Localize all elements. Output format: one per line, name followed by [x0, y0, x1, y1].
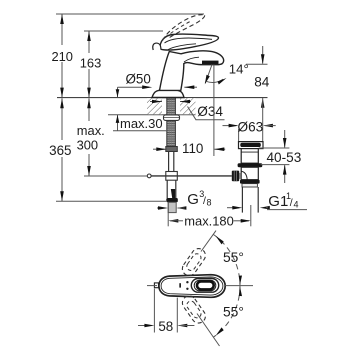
- dimension max.300 vertical line: [87, 98, 91, 176]
- dimension Ø50 base width arrows: [142, 85, 197, 89]
- top view lever paddle: [191, 279, 218, 293]
- countertop hatched slab left of hole: [147, 98, 162, 114]
- dimension 365 vertical line: [60, 98, 64, 201]
- lever raised dashed: [163, 15, 205, 41]
- svg-text:14°: 14°: [229, 62, 249, 77]
- svg-text:55°: 55°: [223, 250, 244, 265]
- water stream centerline: [213, 65, 215, 157]
- label 163: [80, 55, 102, 70]
- dimension 210 vertical line: [60, 14, 64, 98]
- dimension 163 vertical line: [87, 31, 91, 98]
- label max.30 with leader: [113, 115, 166, 131]
- lever cap and handle solid: [160, 34, 218, 50]
- hose end nut G3/8: [166, 198, 178, 202]
- svg-text:8: 8: [207, 197, 212, 207]
- countertop top line: [57, 97, 268, 99]
- label G3/8: [187, 189, 211, 208]
- label G1 1/4: [267, 191, 307, 210]
- svg-text:163: 163: [80, 55, 102, 70]
- dimension 40-53: [259, 130, 290, 183]
- waste tailpipe: [242, 187, 258, 213]
- extension line 163 upper (to lever top): [84, 30, 163, 32]
- spout inner line: [184, 57, 199, 62]
- svg-text:55°: 55°: [223, 305, 244, 320]
- dimension Ø63: [223, 124, 276, 142]
- 14-degree arc with arrow: [206, 78, 226, 85]
- label 365: [49, 143, 71, 158]
- top view centerline: [147, 285, 253, 287]
- extension line top (210 upper, to raised lever tip): [56, 13, 204, 15]
- label max.300: [77, 123, 105, 153]
- pop-up waste locknut: [240, 180, 260, 187]
- dimension Ø34 hole arrows: [150, 100, 191, 104]
- pop-up waste upper cylinder: [241, 149, 258, 164]
- dimension G3/8 arrows: [157, 206, 186, 210]
- dimension 84: [246, 46, 268, 142]
- svg-text:max.30: max.30: [120, 116, 163, 131]
- svg-text:max.: max.: [77, 123, 105, 138]
- label Ø63: [238, 119, 264, 134]
- pop-up pull knob on faucet: [153, 43, 161, 50]
- label Ø50 with leader: [116, 72, 151, 98]
- shank mounting nut below counter: [164, 115, 180, 121]
- faucet body column: [160, 51, 224, 91]
- dimension 58: [138, 289, 194, 333]
- shank end connector: [166, 147, 178, 152]
- top view dashed lever raised +55: [180, 246, 208, 278]
- top view body: [159, 275, 225, 298]
- svg-text:110: 110: [182, 141, 203, 156]
- dimension 110 arrows: [153, 147, 225, 151]
- faucet threaded shank: [167, 98, 176, 147]
- label 55 upper: [223, 250, 244, 265]
- label max.180: [184, 213, 233, 228]
- dimension max.180: [168, 205, 251, 226]
- top view dashed lever lowered -55: [180, 293, 208, 325]
- label 14deg: [229, 62, 249, 77]
- label 210: [51, 49, 73, 64]
- extension line at pop-up rod level (max.300 lower): [84, 175, 150, 177]
- svg-text:210: 210: [51, 49, 73, 64]
- svg-text:40-53: 40-53: [267, 150, 302, 165]
- label 58: [158, 319, 173, 334]
- svg-text:max.180: max.180: [184, 213, 233, 228]
- label 55 lower: [223, 305, 244, 320]
- countertop bottom line: [108, 114, 196, 116]
- top view temperature dots: [179, 281, 188, 290]
- top view spout stub: [154, 283, 158, 288]
- svg-text:Ø63: Ø63: [238, 119, 264, 134]
- pop-up waste O-ring: [238, 163, 263, 167]
- svg-text:300: 300: [77, 137, 99, 152]
- pop-up rod horizontal: [147, 174, 232, 178]
- svg-text:84: 84: [254, 75, 270, 90]
- label 40-53: [267, 150, 302, 165]
- hose nipple: [168, 202, 176, 226]
- pop-up waste body: [241, 167, 258, 180]
- faucet base: [152, 90, 184, 97]
- 14-degree angle line: [205, 65, 212, 85]
- countertop hatched slab right of hole: [180, 98, 196, 114]
- swivel arc lower with arrows: [213, 286, 242, 337]
- label 110: [182, 141, 203, 156]
- flexible hose pair: [167, 152, 176, 199]
- svg-text:/: /: [290, 197, 293, 209]
- svg-text:G: G: [187, 191, 199, 208]
- label 84: [254, 75, 270, 90]
- label Ø34 with leader: [188, 104, 225, 120]
- svg-text:58: 58: [158, 319, 173, 334]
- extension line at hose end level (365 lower): [56, 200, 166, 202]
- swivel arc upper with arrows: [213, 234, 242, 285]
- spout aerator: [200, 61, 220, 65]
- swivel radius line upper: [201, 231, 216, 252]
- pop-up waste flange: [239, 142, 264, 149]
- svg-text:Ø50: Ø50: [126, 72, 151, 87]
- dimension G1 1/4 arrows: [227, 206, 270, 210]
- pop-up lever knob: [232, 171, 241, 182]
- pop-up rod clamp on hose: [166, 172, 178, 181]
- swivel radius line lower: [197, 314, 220, 347]
- svg-text:4: 4: [294, 199, 299, 209]
- svg-text:Ø34: Ø34: [197, 104, 223, 119]
- svg-text:365: 365: [49, 143, 71, 158]
